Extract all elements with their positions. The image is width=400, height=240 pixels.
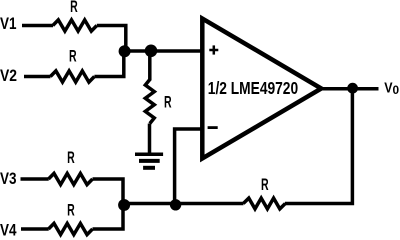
output label V0 bbox=[384, 80, 399, 98]
wire V4 resistor to node C bbox=[93, 204, 124, 230]
wire V2 lead bbox=[24, 75, 51, 79]
wire node D to op-amp inverting input bbox=[175, 129, 204, 204]
wire V4 lead bbox=[21, 227, 49, 231]
resistor R (ground shunt) bbox=[145, 51, 171, 153]
node E output junction dot bbox=[347, 83, 358, 94]
wire V1 resistor to node A bbox=[97, 26, 126, 52]
svg-text:V3: V3 bbox=[0, 169, 17, 188]
svg-text:R: R bbox=[261, 176, 269, 194]
wire V3 lead bbox=[21, 177, 49, 181]
wire op-amp output bbox=[321, 87, 379, 91]
svg-text:V1: V1 bbox=[0, 14, 17, 33]
node D junction dot bbox=[170, 199, 181, 210]
wire V1 lead bbox=[22, 24, 53, 28]
svg-text:R: R bbox=[70, 0, 78, 16]
node A junction dot bbox=[119, 45, 131, 57]
wire V3 resistor to node C bbox=[93, 179, 124, 204]
svg-text:R: R bbox=[69, 48, 77, 66]
op-amp U1 1/2 LME49720 bbox=[202, 19, 321, 159]
wire node B to op-amp noninverting input bbox=[151, 49, 204, 53]
resistor R (feedback) bbox=[243, 176, 285, 209]
resistor R (V3 input) bbox=[49, 149, 93, 185]
svg-text:1/2 LME49720: 1/2 LME49720 bbox=[208, 78, 299, 98]
wire node C to node D (bottom rail) bbox=[123, 202, 176, 206]
resistor R (V4 input) bbox=[49, 201, 93, 234]
svg-text:V: V bbox=[384, 80, 392, 97]
svg-text:R: R bbox=[67, 201, 75, 219]
svg-text:R: R bbox=[164, 93, 172, 111]
svg-text:0: 0 bbox=[393, 83, 400, 97]
svg-text:V4: V4 bbox=[0, 221, 17, 239]
svg-text:V2: V2 bbox=[0, 66, 17, 85]
wire V2 resistor to node A bbox=[94, 51, 123, 77]
wire node A to node B bbox=[125, 49, 151, 53]
node C junction dot bbox=[118, 199, 130, 211]
resistor R (V1 input) bbox=[53, 0, 97, 31]
wire feedback from output down to bottom rail bbox=[285, 88, 352, 203]
wire feedback resistor to node D bbox=[176, 202, 244, 206]
ground bbox=[135, 154, 163, 168]
node B junction dot bbox=[145, 45, 158, 58]
resistor R (V2 input) bbox=[50, 48, 94, 83]
svg-text:R: R bbox=[67, 149, 75, 167]
